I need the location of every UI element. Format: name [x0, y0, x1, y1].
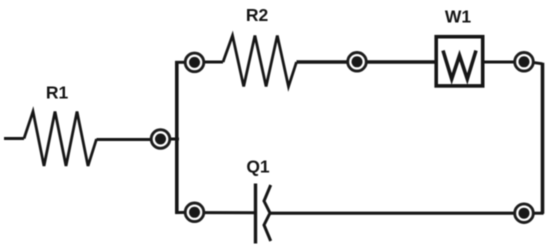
wire top-right node to right vertical: [532, 62, 543, 64]
resistor R1: [24, 112, 97, 167]
node bottom-right: [515, 204, 534, 223]
Warburg element W1 letter W: [443, 51, 476, 80]
node A (junction of R1 and branches): [151, 130, 170, 149]
node top-right: [515, 53, 534, 72]
wire left vertical to bottom-left node: [175, 211, 186, 214]
wire right vertical to bottom-right node: [532, 212, 544, 215]
svg-text:Q1: Q1: [246, 157, 270, 177]
wire R1 to node A: [97, 138, 153, 141]
CPE Q1 right chevrons: [264, 185, 271, 241]
wire top-left node to R2: [203, 61, 223, 64]
wire Q1 to bottom-right node: [270, 212, 516, 215]
wire left vertical to top-left node: [175, 61, 186, 64]
resistor R2: [223, 36, 297, 87]
svg-text:R2: R2: [246, 5, 269, 25]
svg-text:R1: R1: [46, 83, 69, 103]
wire top-middle node to W1 box: [365, 60, 437, 63]
node bottom-left: [185, 203, 204, 222]
CPE Q1 left plate: [254, 184, 257, 244]
wire W1 box to top-right node: [483, 61, 516, 64]
wire left vertical riser: [175, 61, 179, 214]
wire node A to left vertical: [169, 138, 179, 141]
wire R2 to top-middle node: [297, 60, 350, 63]
wire left lead into R1: [4, 137, 24, 140]
wire bottom-left node to Q1: [203, 211, 256, 214]
Warburg element W1 box: [436, 37, 483, 86]
node top-left: [185, 53, 204, 72]
wire right vertical drop: [541, 63, 545, 214]
svg-text:W1: W1: [445, 7, 472, 27]
node top-middle: [348, 53, 367, 72]
